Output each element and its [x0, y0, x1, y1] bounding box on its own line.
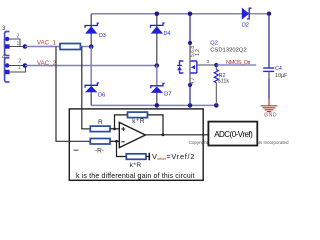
- wire VAC_2: [25, 65, 157, 67]
- svg-text:10µF: 10µF: [275, 73, 288, 79]
- svg-text:D2: D2: [242, 23, 249, 29]
- wire net stub NMOS_Dri: [216, 64, 256, 66]
- connector J3 body: [5, 32, 10, 56]
- junction VAC_1 at bridge: [89, 44, 94, 49]
- junction top rail at Q2 column: [188, 12, 193, 17]
- resistor k*R offset: [126, 154, 146, 160]
- wire C4 column: [268, 14, 270, 68]
- svg-text:GND: GND: [264, 112, 277, 118]
- diode D4: [151, 23, 165, 34]
- connector J3 pin 2 contact: [5, 37, 9, 41]
- connector J4 pin 2 wire: [9, 65, 25, 67]
- resistor k*R feedback: [128, 112, 148, 118]
- svg-text:C4: C4: [275, 66, 282, 72]
- op-amp circuit enclosure box: [69, 109, 203, 180]
- svg-text:1: 1: [18, 65, 21, 71]
- svg-text:D6: D6: [98, 92, 105, 98]
- svg-text:Q2: Q2: [210, 40, 218, 46]
- svg-text:D3: D3: [99, 33, 106, 39]
- svg-text:offset: offset: [157, 157, 166, 161]
- svg-text:2: 2: [18, 59, 21, 65]
- junction feedback tap on plus input: [113, 127, 116, 130]
- wire shunt to bridge node: [80, 46, 91, 48]
- connector J4 pin 1 wire: [10, 66, 26, 73]
- svg-text:ADC(0-Vref): ADC(0-Vref): [214, 130, 253, 139]
- svg-text:CSD13202Q2: CSD13202Q2: [210, 47, 247, 53]
- diode D6: [85, 83, 99, 92]
- junction bottom rail at D7 column: [155, 103, 160, 108]
- wire upper R to op-amp plus input: [110, 128, 119, 130]
- wire op-amp output to ADC: [145, 134, 208, 136]
- junction gate and R2: [214, 63, 218, 67]
- junction bottom rail at Q2 column: [188, 103, 193, 108]
- wire lower R to op-amp minus input: [110, 140, 119, 142]
- resistor R2: [214, 65, 218, 105]
- svg-text:D4: D4: [164, 31, 171, 37]
- resistor R lower: [90, 139, 110, 145]
- junction Q2 drain node: [188, 41, 192, 45]
- capacitor C4: [263, 68, 274, 71]
- svg-text:NMOS_Dri: NMOS_Dri: [226, 60, 250, 66]
- wire bridge column D4 upper: [156, 14, 158, 66]
- svg-text:k*R: k*R: [130, 162, 142, 169]
- wire VAC_1 to shunt resistor: [25, 46, 60, 48]
- svg-text:-R-: -R-: [95, 148, 104, 155]
- wire offset resistor to terminal: [146, 156, 149, 158]
- wire sense tap 2 vertical: [82, 47, 91, 129]
- junction VAC_2 at bridge: [155, 63, 160, 68]
- svg-text:V: V: [152, 152, 157, 161]
- svg-text:D7: D7: [164, 92, 171, 98]
- svg-text:k*R: k*R: [132, 118, 145, 125]
- svg-text:3: 3: [207, 59, 210, 65]
- wire Q2 gate: [197, 64, 217, 66]
- junction VAC_1 at connector: [23, 44, 28, 49]
- wire top rail: [91, 13, 242, 15]
- junction Q2 source node: [188, 83, 192, 87]
- wire bridge column D7 lower: [156, 66, 158, 86]
- dash mark left of lower R label: [74, 149, 79, 151]
- connector J3 pin 1 contact: [5, 44, 10, 48]
- junction top rail at C4 column: [267, 12, 271, 16]
- svg-text:4,7: 4,7: [190, 77, 196, 84]
- wire Q2 drain column: [189, 14, 191, 43]
- diode D3: [85, 23, 99, 33]
- ground GND: [261, 99, 278, 111]
- svg-text:1: 1: [17, 41, 20, 47]
- wire feedback to output: [148, 115, 164, 135]
- transistor Q2 symbol: [177, 43, 197, 85]
- resistor R upper: [90, 126, 110, 132]
- junction top rail at D4 column: [155, 12, 160, 17]
- svg-text:1,2: 1,2: [195, 49, 201, 56]
- op-amp U1: [119, 122, 145, 147]
- junction offset tap on minus input: [115, 140, 118, 143]
- svg-text:k is the differential gain of: k is the differential gain of this circu…: [76, 172, 195, 180]
- connector J3 pin 1 wire: [10, 46, 25, 48]
- wire bridge column D6 lower: [90, 47, 92, 86]
- block ADC: [208, 122, 257, 146]
- resistor shunt R: [60, 44, 80, 50]
- wire Q2 source column: [189, 85, 191, 105]
- wire sense tap 1 vertical: [56, 47, 90, 142]
- wire C4 to ground: [268, 71, 270, 78]
- junction bottom rail at R2 column: [214, 103, 219, 108]
- wire minus node down to offset resistor: [117, 141, 127, 156]
- diode D7: [151, 83, 165, 93]
- wire feedback from plus node up: [115, 115, 128, 129]
- junction VAC_2 at connector: [23, 63, 28, 68]
- wire bottom rail: [91, 104, 217, 106]
- connector J4 pin 1 contact: [5, 70, 10, 74]
- connector J3 pin 2 wire: [9, 39, 20, 47]
- svg-text:=Vref/2: =Vref/2: [166, 152, 194, 161]
- svg-text:2: 2: [17, 34, 20, 40]
- junction feedback on output: [162, 133, 165, 136]
- terminal bar Voffset: [148, 153, 150, 161]
- svg-text:511k: 511k: [218, 79, 230, 85]
- diode D2: [242, 8, 269, 20]
- connector J4 body: [5, 58, 10, 82]
- connector J4 pin 2 contact: [5, 63, 9, 67]
- wire bridge column D3 upper: [90, 14, 92, 47]
- svg-text:R: R: [98, 119, 103, 126]
